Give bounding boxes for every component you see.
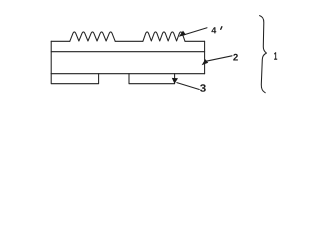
layer boundary line between film 4 and body 2	[51, 51, 204, 53]
label 3	[200, 84, 206, 92]
arrowhead of leader 2	[202, 59, 209, 65]
prime mark of label 4'	[221, 27, 222, 30]
wire top edge right segment	[185, 40, 205, 42]
label 2	[233, 54, 238, 61]
arrowhead of leader 4'	[179, 31, 186, 37]
zigzag heater element 4' right section	[143, 32, 185, 41]
wire top edge left segment	[51, 40, 70, 42]
layer 2 bottom edge	[51, 73, 204, 75]
zigzag heater element 4' left section	[70, 32, 115, 41]
arrowhead of leader 3	[172, 78, 178, 84]
label 4	[211, 27, 216, 33]
layer 2 right edge	[204, 41, 206, 73]
wire top edge middle segment	[115, 40, 143, 42]
brace for assembly 1	[260, 16, 267, 93]
leader line to label 4'	[183, 28, 207, 36]
layer 2 left edge	[50, 41, 52, 73]
leader line to label 3	[177, 83, 199, 90]
leader line to label 2	[206, 56, 232, 62]
electrode pad 3 left	[51, 74, 98, 84]
label 1	[274, 52, 277, 60]
electrode pad 3 right	[129, 74, 175, 84]
